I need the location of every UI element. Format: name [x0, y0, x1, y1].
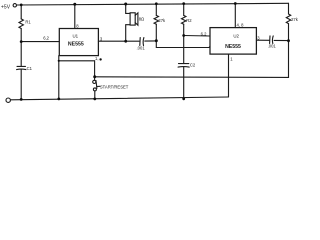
svg-text:C2: C2: [190, 62, 196, 67]
svg-text:U2: U2: [233, 34, 239, 39]
svg-text:27k: 27k: [291, 17, 299, 22]
svg-text:C1: C1: [27, 66, 33, 71]
svg-text:START/RESET: START/RESET: [100, 85, 129, 90]
svg-text:.001: .001: [137, 45, 146, 50]
svg-text:NE555: NE555: [68, 42, 84, 48]
svg-text:NE555: NE555: [225, 44, 241, 50]
svg-text:1,: 1,: [95, 56, 99, 61]
svg-text:6,2: 6,2: [43, 35, 49, 40]
svg-text:R1: R1: [25, 20, 31, 25]
svg-text:+5V: +5V: [1, 5, 11, 11]
svg-text:27k: 27k: [158, 18, 166, 23]
svg-text:4, 8: 4, 8: [237, 23, 245, 28]
svg-text:8Ω: 8Ω: [139, 16, 144, 21]
svg-text:.001: .001: [268, 44, 277, 49]
svg-text:R2: R2: [186, 18, 192, 23]
svg-text:U1: U1: [72, 34, 78, 39]
svg-text:6,2: 6,2: [201, 31, 207, 36]
